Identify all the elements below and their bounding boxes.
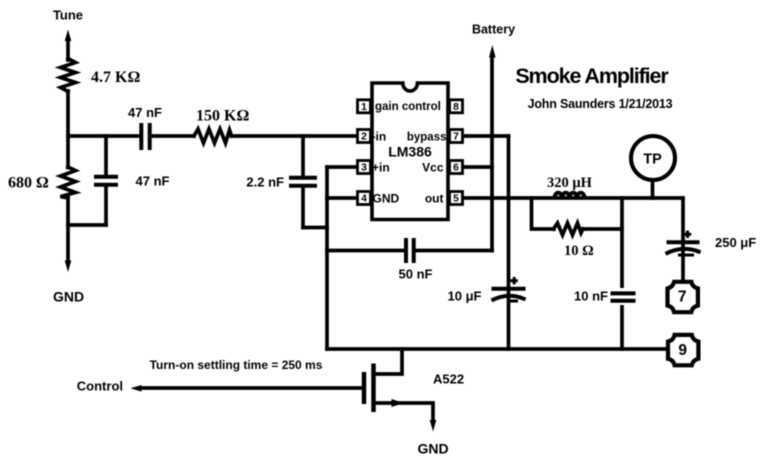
svg-text:10 Ω: 10 Ω	[564, 243, 594, 259]
svg-text:2.2 nF: 2.2 nF	[246, 175, 284, 190]
Tune arrow	[65, 30, 72, 61]
value 250 uF	[715, 235, 756, 250]
value 47 nF top	[128, 105, 162, 120]
svg-text:TP: TP	[643, 152, 662, 168]
svg-text:Tune: Tune	[53, 8, 83, 23]
svg-text:A522: A522	[433, 372, 464, 387]
ground arrow left	[65, 261, 72, 273]
svg-text:7: 7	[453, 132, 459, 143]
wire 10 Ohm branch right	[583, 227, 622, 231]
wire pin6 Vcc	[463, 165, 492, 169]
wire pin7 bypass	[463, 134, 509, 138]
svg-text:GND: GND	[417, 441, 448, 457]
op-amp U1 LM386 body	[372, 83, 448, 220]
subtitle John Saunders	[528, 97, 673, 111]
pin 6 box	[450, 161, 463, 174]
pin label gain control	[375, 101, 441, 113]
value 4.7 KOhm	[91, 69, 140, 86]
Control label	[77, 379, 123, 394]
ground arrow bottom	[430, 420, 437, 432]
value 150 KOhm	[196, 108, 249, 125]
inductor 320uH	[555, 193, 585, 198]
svg-text:6: 6	[453, 163, 459, 174]
svg-text:-in: -in	[372, 130, 387, 144]
GND label bottom	[417, 441, 448, 457]
label A522	[433, 372, 464, 387]
capacitor 47nF shunt	[94, 136, 118, 225]
svg-text:47 nF: 47 nF	[128, 105, 162, 120]
resistor 4.7K	[61, 59, 76, 92]
svg-text:out: out	[425, 191, 444, 205]
resistor 150K	[194, 129, 232, 143]
wire ground net vertical	[325, 167, 329, 349]
source arrow	[392, 399, 404, 407]
svg-text:250 μF: 250 μF	[715, 235, 756, 250]
wire cap2 bottom to main	[68, 223, 106, 227]
svg-text:Vcc: Vcc	[422, 160, 444, 174]
svg-text:5: 5	[453, 194, 459, 205]
wire MOSFET source	[374, 403, 434, 419]
capacitor 10uF	[492, 277, 526, 301]
wire bypass down	[507, 136, 511, 349]
wire bottom ground rail	[327, 347, 665, 351]
value 320 uH	[547, 175, 593, 191]
svg-text:3: 3	[361, 163, 367, 174]
svg-text:680 Ω: 680 Ω	[8, 175, 49, 192]
note turn-on settling time	[150, 358, 323, 372]
capacitor 50nF	[406, 238, 414, 263]
value 47 nF shunt	[136, 174, 170, 189]
wire pin5 out	[463, 196, 683, 200]
node Tune label	[53, 8, 83, 23]
wire 10 Ohm branch left	[532, 198, 555, 229]
value 10 nF	[574, 289, 608, 304]
pin label GND	[373, 191, 400, 205]
wire R1 to junction to R2	[66, 91, 70, 168]
value 10 uF	[448, 289, 482, 304]
svg-text:10 μF: 10 μF	[448, 289, 482, 304]
wire R2 bottom	[66, 198, 70, 260]
svg-text:4: 4	[361, 194, 367, 205]
svg-text:Battery: Battery	[472, 23, 515, 37]
pin label Vcc	[422, 160, 444, 174]
pin label out	[425, 191, 444, 205]
svg-text:10 nF: 10 nF	[574, 289, 608, 304]
svg-text:47 nF: 47 nF	[136, 174, 170, 189]
pin 5 box	[450, 192, 463, 205]
wire MOSFET drain	[374, 349, 403, 374]
wire 50nF right to battery line	[416, 249, 492, 253]
Battery label	[472, 23, 515, 37]
transistor A522 gate bar	[362, 372, 367, 404]
wire gate from Control	[142, 386, 362, 390]
svg-text:Control: Control	[77, 379, 123, 394]
svg-text:9: 9	[678, 342, 687, 359]
resistor 10 Ohm	[554, 223, 584, 235]
svg-text:Turn-on settling time = 250 ms: Turn-on settling time = 250 ms	[150, 358, 323, 372]
pin 3 box	[358, 161, 371, 174]
pin 4 box	[358, 192, 371, 205]
svg-text:bypass: bypass	[407, 132, 447, 144]
capacitor 10nF	[611, 288, 636, 305]
svg-text:4.7 KΩ: 4.7 KΩ	[91, 69, 140, 86]
pin 2 box	[358, 130, 371, 143]
svg-text:320 μH: 320 μH	[547, 175, 593, 191]
connector node 9	[668, 335, 698, 365]
value 50 nF	[399, 267, 433, 282]
svg-text:8: 8	[453, 102, 459, 113]
pin 7 box	[450, 130, 463, 143]
svg-text:John Saunders 1/21/2013: John Saunders 1/21/2013	[528, 97, 673, 111]
wire pin4	[327, 196, 358, 200]
label LM386	[388, 144, 432, 160]
wire junction to cap1	[68, 134, 140, 138]
svg-text:LM386: LM386	[388, 144, 432, 160]
svg-text:GND: GND	[53, 289, 84, 305]
pin label -in	[372, 130, 387, 144]
title Smoke Amplifier	[515, 64, 669, 88]
pin label +in	[372, 160, 390, 174]
Control arrow	[131, 385, 142, 392]
connector node 7	[668, 282, 698, 312]
value 680 Ohm	[8, 175, 49, 192]
wire out to 250uF	[681, 198, 685, 282]
svg-text:Smoke Amplifier: Smoke Amplifier	[515, 64, 669, 88]
svg-text:150 KΩ: 150 KΩ	[196, 108, 249, 125]
svg-text:2: 2	[361, 132, 367, 143]
pin 8 box	[450, 100, 463, 113]
wire cap1 to R3	[152, 134, 195, 138]
svg-text:GND: GND	[373, 191, 400, 205]
GND label left	[53, 289, 84, 305]
wire battery line	[490, 56, 494, 251]
test point TP	[631, 136, 675, 198]
svg-text:50 nF: 50 nF	[399, 267, 433, 282]
wire output node vertical	[620, 198, 624, 349]
capacitor 250uF	[666, 231, 701, 255]
svg-text:7: 7	[678, 289, 687, 306]
svg-text:1: 1	[361, 102, 367, 113]
wire 50nF left	[327, 249, 404, 253]
wire pin3	[327, 165, 358, 169]
capacitor 47nF series	[141, 123, 149, 150]
transistor A522 channel bar	[371, 364, 376, 413]
capacitor 2.2nF	[289, 136, 327, 228]
resistor 680	[61, 167, 76, 198]
wire R3 to pin2	[232, 134, 359, 138]
battery arrow	[489, 45, 496, 58]
pin 1 box	[358, 100, 371, 113]
value 10 Ohm	[564, 243, 594, 259]
value 2.2 nF	[246, 175, 284, 190]
svg-text:+in: +in	[372, 160, 390, 174]
svg-text:gain control: gain control	[375, 101, 441, 113]
pin label bypass	[407, 132, 447, 144]
